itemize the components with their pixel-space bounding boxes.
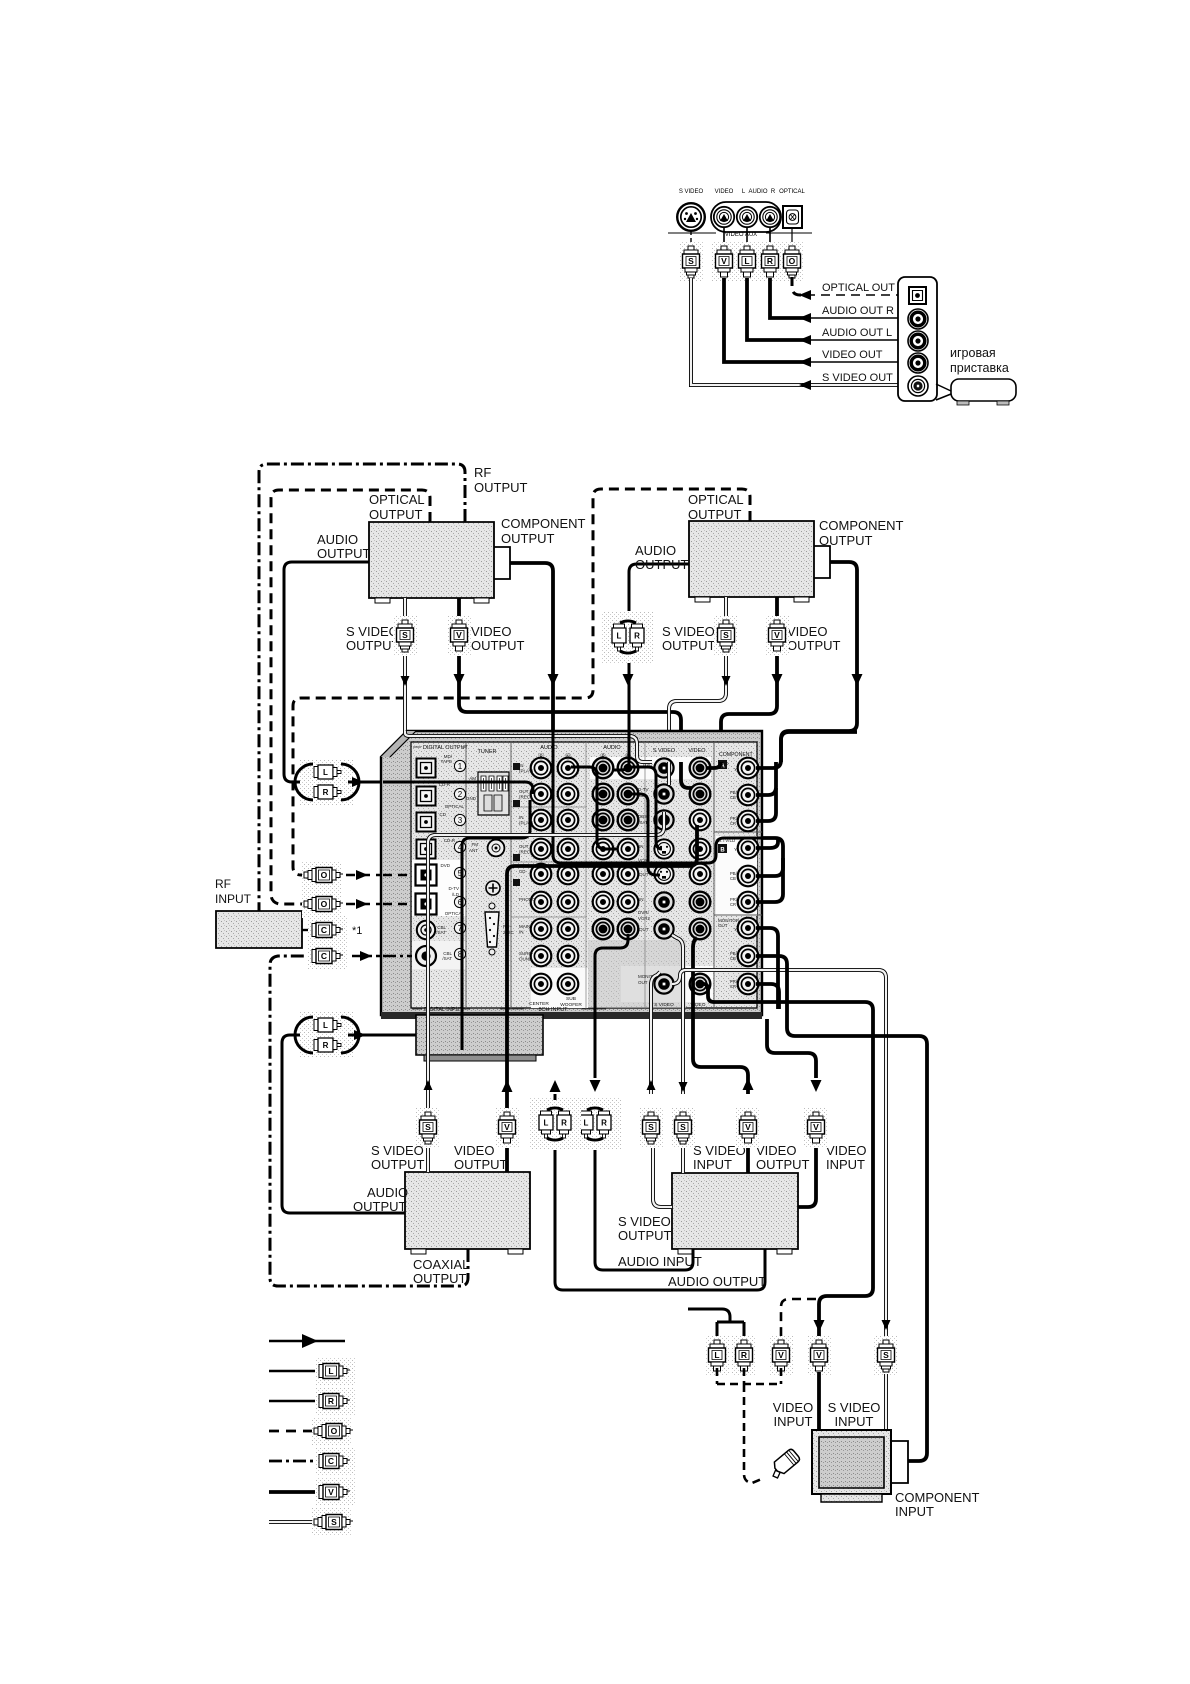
svg-text:OUT: OUT	[718, 923, 728, 928]
legend: s video cable	[269, 1520, 316, 1524]
wire monitor s video out to TV (gray)	[672, 970, 886, 1340]
svg-text:S VIDEO: S VIDEO	[828, 1400, 881, 1415]
svg-text:S VIDEO: S VIDEO	[679, 189, 704, 195]
svg-text:Ⓝ: Ⓝ	[565, 753, 572, 761]
svg-text:INPUT: INPUT	[826, 1157, 865, 1172]
wire VCR video out up into panel	[693, 938, 748, 1094]
svg-text:GND: GND	[466, 796, 477, 801]
GND screw	[486, 881, 500, 895]
device box upper-left (DVD player)	[369, 522, 494, 598]
console audio out R jack	[908, 309, 928, 329]
svg-text:VIDEO: VIDEO	[773, 1400, 813, 1415]
svg-text:S: S	[648, 1122, 654, 1132]
TV body	[812, 1430, 891, 1494]
svg-text:OUTPUT: OUTPUT	[501, 531, 555, 546]
plug L into VIDEO AUX	[746, 228, 748, 246]
svg-text:OUT: OUT	[639, 872, 649, 877]
svg-text:S: S	[723, 630, 729, 640]
svg-text:/LD: /LD	[452, 892, 460, 897]
svg-text:OUTPUT: OUTPUT	[756, 1157, 810, 1172]
wire component output left device into panel	[510, 563, 553, 731]
tuner antenna terminal block	[478, 772, 509, 815]
svg-text:O: O	[321, 870, 328, 880]
svg-text:OUTPUT: OUTPUT	[618, 1228, 672, 1243]
svg-text:TUNER: TUNER	[478, 749, 497, 755]
svg-text:R: R	[741, 1350, 747, 1360]
svg-text:игровая: игровая	[950, 346, 996, 360]
svg-text:(PLAY): (PLAY)	[519, 769, 534, 774]
svg-text:(REC): (REC)	[519, 795, 532, 800]
svg-text:S: S	[680, 1122, 686, 1132]
svg-text:VIDEO: VIDEO	[454, 1143, 494, 1158]
FM antenna coax jack	[488, 840, 505, 857]
legend: video cable	[269, 1490, 319, 1494]
svg-text:S: S	[688, 256, 694, 266]
wire video cable from console	[724, 278, 806, 362]
plug V (left device)	[447, 616, 471, 656]
svg-text:(REC): (REC)	[519, 850, 532, 855]
wire OPTICAL OUTPUT dashed frame (left device to digital input 6)	[271, 490, 430, 904]
svg-text:VIDEO AUX: VIDEO AUX	[725, 232, 757, 238]
svg-text:OPTICAL: OPTICAL	[369, 492, 425, 507]
svg-text:OUTPUT: OUTPUT	[688, 507, 742, 522]
svg-text:R: R	[634, 632, 640, 641]
component B bus stubs	[756, 838, 778, 848]
svg-text:S VIDEO: S VIDEO	[346, 624, 399, 639]
wire monitor video out to TV	[700, 984, 873, 1340]
svg-text:OUTPUT: OUTPUT	[413, 1271, 467, 1286]
svg-text:приставка: приставка	[950, 361, 1009, 375]
svg-text:VIDEO: VIDEO	[756, 1143, 796, 1158]
svg-text:OUTPUT: OUTPUT	[371, 1157, 425, 1172]
svg-text:D-TV: D-TV	[448, 886, 459, 891]
svg-text:S VIDEO: S VIDEO	[662, 624, 715, 639]
svg-text:COMPONENT: COMPONENT	[819, 518, 904, 533]
wire RF OUTPUT dash-dot frame (left device to RF input box)	[259, 464, 465, 911]
wire audio right device inside panel	[612, 731, 629, 770]
svg-text:OUND: OUND	[519, 957, 533, 962]
svg-text:OUTPUT: OUTPUT	[317, 546, 371, 561]
game console body	[951, 379, 1016, 401]
svg-text:OUTPUT: OUTPUT	[346, 638, 400, 653]
svg-text:S VIDEO: S VIDEO	[618, 1214, 671, 1229]
svg-text:SURR-: SURR-	[519, 951, 534, 956]
svg-text:INPUT: INPUT	[773, 1414, 812, 1429]
svg-text:PHONO: PHONO	[519, 897, 536, 902]
device box upper-right (D-TV/LD player)	[689, 521, 814, 597]
wire video output bottom-left device	[505, 1019, 509, 1172]
svg-text:L: L	[617, 632, 622, 641]
svg-text:/SAT: /SAT	[436, 930, 446, 935]
receiver rear panel body	[381, 731, 762, 1019]
svg-text:INPUT: INPUT	[895, 1504, 934, 1519]
wire OPTICAL OUTPUT dashed frame (right device to digital input 5)	[293, 489, 750, 875]
svg-text:AUDIO OUT R: AUDIO OUT R	[822, 305, 894, 317]
svg-text:VIDEO: VIDEO	[826, 1143, 866, 1158]
plug C row *1 from RF box	[302, 929, 312, 931]
legend: signal direction arrow	[269, 1340, 345, 1343]
plug V TV video input	[813, 1320, 824, 1332]
plug pair L/R (bottom-left device audio)	[295, 1012, 359, 1058]
wire internal audio routing a	[571, 767, 618, 849]
svg-text:L AUDIO R: L AUDIO R	[742, 189, 776, 195]
component output bracket left device	[494, 547, 510, 579]
panel white highlight zones	[412, 860, 466, 916]
svg-text:CB: CB	[730, 876, 736, 881]
svg-text:CB: CB	[730, 795, 736, 800]
RS-232C connector	[485, 903, 499, 955]
svg-text:AUDIO: AUDIO	[367, 1185, 408, 1200]
svg-text:OUTPUT: OUTPUT	[662, 638, 716, 653]
wire coaxial output path (bottom-left device to digital input 8)	[270, 956, 468, 1286]
wire VCR video output	[746, 1143, 750, 1173]
svg-text:L: L	[714, 1350, 719, 1360]
svg-text:OUT: OUT	[638, 980, 648, 985]
plug O row to digital input 6	[302, 890, 343, 918]
video input jacks	[690, 758, 711, 779]
wire s video output left device	[403, 598, 407, 731]
svg-text:R: R	[561, 1119, 567, 1128]
wire video right device inside panel	[706, 762, 721, 768]
wire audio R cable from console	[770, 278, 806, 318]
svg-text:L: L	[544, 1119, 549, 1128]
svg-text:AUDIO OUTPUT: AUDIO OUTPUT	[668, 1274, 766, 1289]
svg-text:VIDEO OUT: VIDEO OUT	[822, 349, 883, 361]
svg-text:V: V	[774, 630, 780, 640]
svg-text:CR: CR	[730, 902, 736, 907]
svg-text:L: L	[323, 768, 328, 777]
svg-text:S: S	[331, 1517, 337, 1527]
wire audio output left device to L/R pair	[284, 562, 369, 782]
dashed cable to SCART	[744, 1384, 764, 1483]
svg-text:O: O	[321, 899, 328, 909]
svg-text:V: V	[328, 1487, 334, 1497]
svg-text:IN: IN	[519, 930, 524, 935]
component A bus stubs and bus to right device	[756, 732, 857, 768]
svg-text:RF: RF	[474, 465, 491, 480]
svg-text:VIDEO: VIDEO	[688, 748, 706, 754]
dashed video to TV alternative	[781, 1299, 816, 1340]
console audio out L jack	[908, 331, 928, 351]
wire s video output bottom-left device (gray)	[426, 1019, 430, 1172]
svg-text:C: C	[321, 925, 327, 935]
wire internal audio routing c	[632, 794, 660, 875]
svg-text:R: R	[601, 1119, 607, 1128]
svg-text:OPTICAL: OPTICAL	[445, 804, 465, 809]
svg-text:L: L	[584, 1119, 589, 1128]
svg-text:AM: AM	[469, 776, 476, 781]
svg-text:V: V	[745, 1122, 751, 1132]
svg-text:DVD: DVD	[440, 863, 450, 868]
plug pair L/R vertical (right device audio)	[602, 611, 654, 663]
svg-text:Ⓡ: Ⓡ	[538, 753, 545, 761]
wire component output right device down right side	[781, 562, 857, 762]
wire VCR audio out inside panel then down to pair B	[595, 934, 628, 1078]
audio section jacks (MD/TAPE,CD-R,CD,PHONO,MAIN,SURROUND,CENTER,SUBWOOFER)	[531, 758, 552, 779]
svg-text:Ⓡ: Ⓡ	[600, 753, 607, 761]
game console jack panel	[898, 277, 937, 401]
svg-text:FM: FM	[471, 842, 478, 847]
svg-text:AUDIO OUT L: AUDIO OUT L	[822, 327, 892, 339]
svg-text:DVR/: DVR/	[638, 910, 650, 915]
svg-text:INPUT: INPUT	[215, 892, 252, 906]
TV component input bracket	[891, 1441, 908, 1483]
VIDEO AUX caption line	[668, 232, 716, 234]
svg-text:IN: IN	[639, 844, 644, 849]
console optical out jack	[909, 287, 926, 304]
wire audio L cable from console	[747, 278, 806, 340]
svg-text:CB: CB	[730, 956, 736, 961]
wire VCR video input	[798, 1143, 816, 1207]
legend: audio L cable	[269, 1370, 319, 1373]
svg-text:CR: CR	[730, 821, 736, 826]
svg-text:V: V	[813, 1122, 819, 1132]
plug O (optical) into VIDEO AUX	[791, 228, 793, 246]
wire video output right device	[721, 597, 777, 762]
svg-text:V: V	[721, 256, 727, 266]
svg-text:/SAT: /SAT	[638, 820, 648, 825]
TV audio L/R plugs with feed bracket	[688, 1309, 744, 1340]
svg-text:C: C	[321, 951, 327, 961]
svg-text:O: O	[789, 256, 796, 266]
dashed optical stubs inside panel	[383, 874, 413, 877]
wire VCR s video input (gray)	[681, 1143, 685, 1173]
svg-text:OUTPUT: OUTPUT	[787, 638, 841, 653]
svg-text:IN: IN	[639, 897, 644, 902]
wire optical cable from console (dashed)	[792, 277, 806, 295]
svg-text:V: V	[456, 630, 462, 640]
svg-text:OUT: OUT	[519, 844, 529, 849]
SCART connector	[767, 1448, 801, 1480]
wire audio L/R from left device inside panel	[383, 782, 533, 794]
svg-text:R: R	[767, 256, 773, 266]
svg-text:MAIN: MAIN	[519, 924, 530, 929]
wire VCR audio output to pair A	[555, 1148, 765, 1290]
svg-text:*1: *1	[352, 925, 362, 937]
svg-text:IN: IN	[519, 815, 524, 820]
svg-text:AUDIO: AUDIO	[603, 745, 621, 751]
wire video output left device	[459, 598, 681, 762]
svg-text:R: R	[323, 788, 329, 797]
legend: optical cable	[269, 1430, 316, 1433]
svg-text:ANT: ANT	[469, 848, 478, 853]
wire video left device inside panel	[681, 762, 692, 788]
svg-text:AUDIO INPUT: AUDIO INPUT	[618, 1254, 702, 1269]
svg-text:INPUT: INPUT	[834, 1414, 873, 1429]
svg-text:OUTPUT: OUTPUT	[369, 507, 423, 522]
s video input jacks	[654, 758, 673, 777]
plug S (right device)	[714, 616, 738, 656]
svg-text:DBS: DBS	[638, 814, 647, 819]
svg-text:R: R	[323, 1041, 329, 1050]
plug S into VIDEO AUX	[690, 231, 692, 246]
wire internal audio routing b	[632, 767, 662, 849]
svg-text:/SAT: /SAT	[442, 956, 452, 961]
svg-text:R: R	[328, 1396, 334, 1406]
svg-text:V: V	[504, 1122, 510, 1132]
svg-text:OUTPUT: OUTPUT	[635, 557, 689, 572]
digital output/input jacks 1-8	[416, 759, 435, 778]
plug V (right device)	[765, 616, 789, 656]
svg-text:TAPE: TAPE	[441, 759, 452, 764]
wire VCR video in from panel right	[767, 1019, 816, 1078]
svg-text:COMPONENT: COMPONENT	[501, 516, 586, 531]
device box bottom-left (CD/DVD with coax)	[405, 1172, 530, 1249]
svg-text:CD: CD	[519, 869, 526, 874]
svg-text:VIDEO: VIDEO	[471, 624, 511, 639]
svg-text:8CH INPUT: 8CH INPUT	[538, 1007, 568, 1013]
plug S TV s video input (gray)	[881, 1320, 890, 1330]
plug pair A (VCR audio out)	[529, 1098, 581, 1150]
svg-text:AUDIO: AUDIO	[540, 745, 558, 751]
svg-text:S VIDEO: S VIDEO	[653, 748, 676, 754]
device box bottom-middle (VCR)	[672, 1173, 798, 1249]
plug R into VIDEO AUX	[769, 228, 771, 246]
plug C row (coaxial) to digital input 8	[308, 942, 348, 970]
svg-text:INPUT: INPUT	[693, 1157, 732, 1172]
svg-text:L: L	[323, 1021, 328, 1030]
svg-text:OPTICAL: OPTICAL	[779, 189, 805, 195]
svg-text:B: B	[720, 848, 725, 854]
legend: audio R cable	[269, 1400, 319, 1403]
svg-text:OUTPUT: OUTPUT	[819, 533, 873, 548]
wire VCR s video output (gray) up to panel	[653, 1145, 672, 1207]
legend: coaxial cable	[269, 1460, 319, 1463]
svg-text:OUTPUT: OUTPUT	[353, 1199, 407, 1214]
svg-text:L: L	[328, 1366, 333, 1376]
svg-text:V: V	[778, 1350, 784, 1360]
console video out jack	[908, 353, 928, 373]
wire VCR s video out up into panel (gray)	[651, 972, 660, 1094]
wire S video cable from console	[691, 278, 806, 385]
svg-text:OPTICAL: OPTICAL	[688, 492, 744, 507]
svg-text:SUB: SUB	[566, 996, 576, 1002]
wire component left device inside panel to B bus	[553, 731, 762, 863]
component monitor out stubs and bus to TV	[756, 928, 778, 1009]
svg-text:O: O	[331, 1426, 338, 1436]
plug V into VIDEO AUX	[723, 228, 725, 246]
plug S (left device)	[393, 616, 417, 656]
wire audio output right device through L/R pair into panel	[629, 564, 689, 731]
svg-text:VCR2: VCR2	[638, 916, 651, 921]
wire bottom-left device s video out inside panel (gray)	[428, 812, 664, 1019]
svg-text:DIGITAL OUTPUT: DIGITAL OUTPUT	[423, 745, 469, 751]
wire bottom-left device video out inside panel	[507, 825, 697, 1019]
svg-text:S: S	[425, 1122, 431, 1132]
svg-text:CR: CR	[730, 984, 736, 989]
console row lines into jack panel	[806, 294, 898, 296]
svg-text:AUDIO: AUDIO	[317, 532, 358, 547]
svg-text:D-TV: D-TV	[638, 787, 649, 792]
wire s video left device inside panel	[405, 731, 652, 762]
svg-text:S VIDEO OUT: S VIDEO OUT	[822, 372, 893, 384]
svg-text:COMPONENT: COMPONENT	[895, 1490, 980, 1505]
svg-text:C: C	[328, 1456, 334, 1466]
svg-text:CD-R: CD-R	[444, 838, 456, 843]
svg-text:V: V	[816, 1350, 822, 1360]
console s video out jack	[908, 376, 928, 396]
wire VCR audio input from pair B	[595, 1148, 693, 1270]
svg-text:OUTPUT: OUTPUT	[471, 638, 525, 653]
svg-text:RF: RF	[215, 877, 231, 891]
svg-text:COAXIAL: COAXIAL	[413, 1257, 469, 1272]
receiver front VIDEO AUX jack group	[677, 189, 805, 232]
svg-text:OUT: OUT	[519, 789, 529, 794]
wire audio output bottom-left device to lower L/R pair	[282, 1035, 405, 1213]
plug O row to digital input 5	[302, 861, 343, 889]
callout tail to console body	[936, 384, 951, 400]
svg-text:AUDIO: AUDIO	[635, 543, 676, 558]
svg-text:S VIDEO: S VIDEO	[371, 1143, 424, 1158]
svg-text:OUT: OUT	[639, 927, 649, 932]
dashed loop L R V plugs	[717, 1368, 781, 1384]
component jacks A/B/monitor	[738, 758, 759, 779]
svg-text:OUTPUT: OUTPUT	[454, 1157, 508, 1172]
svg-text:S: S	[402, 630, 408, 640]
wire s video right device inside panel	[667, 762, 671, 785]
svg-text:OUTPUT: OUTPUT	[474, 480, 528, 495]
component output bracket right device	[814, 546, 830, 578]
svg-text:S: S	[883, 1350, 889, 1360]
svg-text:OPTICAL OUT: OPTICAL OUT	[822, 282, 895, 294]
svg-text:VIDEO: VIDEO	[715, 189, 734, 195]
wire s video output right device	[669, 597, 726, 762]
svg-text:CD: CD	[439, 812, 446, 817]
panel lower tray	[416, 1015, 543, 1055]
wire VCR s video in down from panel (gray)	[672, 935, 683, 1094]
svg-text:VIDEO: VIDEO	[787, 624, 827, 639]
svg-text:L: L	[744, 256, 749, 266]
svg-text:S VIDEO: S VIDEO	[654, 1002, 674, 1008]
audio input jacks (DVD,D-TV/LD,DBS/SAT,VCR1,VCR2)	[593, 758, 614, 779]
wire digital out to bottom tray inside panel	[462, 800, 530, 1050]
section divider lines	[465, 742, 467, 1009]
plug pair L/R (left device audio)	[295, 759, 359, 805]
plug pair B (VCR audio in)	[569, 1098, 621, 1150]
